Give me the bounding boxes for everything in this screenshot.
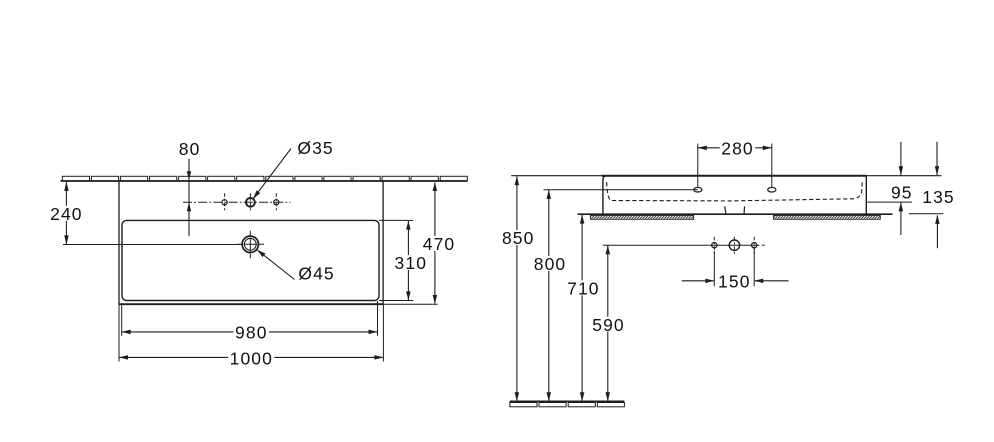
dim 800 line [548,190,550,401]
dim 240 line [65,182,67,244]
dim 980 extension left [121,305,123,336]
fixing hole right [752,243,757,248]
dim 310 extension top [379,219,413,221]
dim 310 extension bottom [379,300,413,302]
dim 280 extension left [697,144,699,187]
dim 150 line right [755,280,789,282]
dim 1000 line [119,356,383,358]
dim 1000 label [228,350,274,365]
dim 240 label [49,206,84,221]
dim 280 arrow right [763,146,772,151]
fixing holes centerline [711,244,759,246]
dim 150 arrow right [754,279,763,284]
dim 280 extension right [771,144,773,187]
console line under basin [578,213,893,215]
svg-text:Ø35: Ø35 [297,138,333,158]
faucet holes centerline [183,201,291,203]
dim 590 arrow bottom [606,392,611,401]
svg-text:Ø45: Ø45 [298,264,334,284]
washbasin inner rim [122,220,379,300]
svg-text:710: 710 [567,278,600,298]
dim 310 label [393,255,428,270]
drain inner circle [244,238,256,250]
svg-text:310: 310 [395,253,428,273]
dim 310 arrow top [406,221,411,230]
dim 850 arrow bottom [515,392,520,401]
washbasin outer front edge [119,303,383,305]
console hatch strip left [590,215,693,219]
drain mark left [725,206,726,214]
faucet hole left [222,200,227,205]
washbasin left edge (front view) [603,176,607,215]
dim 470 label [421,236,456,251]
dim 80 arrow at hole axis [187,202,191,211]
svg-text:80: 80 [179,139,201,159]
drain crosshair vertical [249,231,251,258]
svg-text:280: 280 [721,139,754,159]
svg-text:980: 980 [235,323,268,343]
tap hole right (front view) [768,187,776,192]
dim Ø45 leader [257,250,294,279]
svg-text:800: 800 [534,254,567,274]
dim 280 line [698,147,772,149]
dim 95 arrow bottom [899,202,904,211]
dim Ø45 arrowhead [257,250,265,257]
dim 470 extension line [383,303,438,305]
dim 95 line bottom [900,203,902,235]
drain crosshair horizontal [237,243,264,245]
dim 850 line [516,176,518,401]
dim Ø35 leader [253,149,291,199]
faucet hole 1 vertical centerline [224,193,226,211]
dim 800 arrow top [547,190,552,199]
dim 280 arrow left [698,146,707,151]
svg-text:150: 150 [718,272,751,292]
dim 590 arrow top [606,245,611,254]
dim 1000 arrow left [119,355,128,360]
dim 1000 extension left [118,305,120,362]
dim 135 arrow bottom [935,215,940,224]
faucet hole center Ø35 [246,198,255,207]
dim 1000 extension right [382,305,384,362]
dim 590 label [591,317,626,332]
dim 980 arrow left [122,330,131,335]
dim 710 arrow top [580,215,585,224]
fixing hole 1 vertical centerline [713,237,715,254]
washbasin top edge (front view) [602,175,866,177]
dim 980 line [122,331,378,333]
dim 590 line [607,245,609,401]
dim 470 line [434,183,436,304]
dim 850 arrow top [515,176,520,185]
wall line (top view) [61,180,468,182]
dim 710 label [566,280,601,295]
dim 980 extension right [377,301,379,336]
dim 95 arrow top [899,166,904,175]
dim 240 arrow top [64,182,69,191]
front view top extension line [511,175,941,177]
tap hole left (front view) [694,187,702,192]
drain outer circle [242,236,258,252]
washbasin right edge (front view) [865,176,867,215]
dim 980 label [234,325,269,340]
svg-text:470: 470 [423,234,456,254]
svg-text:590: 590 [592,315,625,335]
svg-text:135: 135 [922,187,955,207]
svg-text:240: 240 [50,204,83,224]
inner bowl hidden line (dashed) [607,182,863,201]
dim 135 line top [936,142,938,175]
dim 310 arrow bottom [406,291,411,300]
dim 150 line left [682,280,714,282]
dim 150 extension right [753,249,755,287]
faucet hole 3 vertical centerline [275,193,277,211]
dim 150 extension left [713,251,715,286]
faucet hole right [274,200,279,205]
dim 850 label [501,230,536,245]
floor tiles row [510,403,537,407]
fixing hole center [729,240,739,250]
dim 590 extension line [603,244,712,246]
dim 800 arrow bottom [547,392,552,401]
fixing hole 2 vertical centerline [733,237,735,254]
dim 1000 arrow right [374,355,383,360]
console hatch strip right [774,215,881,219]
dim 95 extension line [866,201,912,203]
dim 240 extension line [63,244,242,246]
dim 800 label [532,256,567,271]
dim Ø35 arrowhead [253,190,260,199]
drain mark right [743,206,745,214]
dim 240 arrow bottom [64,235,69,244]
dim 470 arrow bottom [433,295,438,304]
dim 80 arrow at wall [187,171,191,180]
washbasin outer right edge [382,181,384,305]
dim 135 line bottom [936,215,938,248]
dim 280 label [720,140,755,155]
washbasin outer left edge [118,181,120,305]
svg-text:850: 850 [502,228,535,248]
dim 135 extension line [909,213,944,215]
dim 135 arrow top [935,166,939,175]
svg-text:95: 95 [891,182,913,202]
dim 95 line top [900,142,902,175]
dim 80 line [188,159,190,236]
svg-text:1000: 1000 [230,348,273,368]
fixing hole left [712,243,717,248]
dim 710 arrow bottom [580,392,585,401]
dim 470 arrow top [433,182,438,191]
fixing hole 3 vertical centerline [753,237,755,254]
dim 800 extension line [544,189,698,191]
faucet hole 2 vertical centerline [249,193,251,211]
dim 710 line [581,215,583,402]
dim 980 arrow right [369,330,378,335]
dim 310 line [407,221,409,300]
floor line [510,400,625,402]
dim 150 arrow left [705,279,714,284]
wall tiles row (top view) [62,176,89,180]
